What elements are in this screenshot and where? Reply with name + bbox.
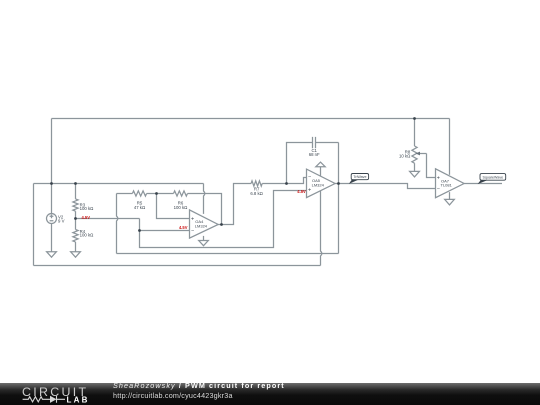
node dot OA4 minus branch [138,229,141,232]
wire C1 right lead [316,142,339,144]
svg-text:−: − [437,186,440,192]
wire R5 to R6 [147,193,174,195]
wire C1 left branch [287,143,313,184]
wire TriWave bottom rail [117,253,339,255]
svg-text:100 kΩ: 100 kΩ [80,206,95,211]
resistor R5 [132,191,146,196]
wire R5 R6 node to OA4 plus [157,194,190,219]
node dot OA4 output [220,223,223,226]
wire OA7 V+ riser [449,119,451,175]
svg-text:LAB: LAB [67,395,90,404]
resistor R4 [73,230,78,242]
op-amp U3 OA7 [436,169,465,198]
potentiometer R8 wiper arrow [420,153,427,155]
capacitor C1 [313,137,316,148]
wire OA7 output [464,183,502,185]
resistor R7 [251,181,262,186]
wire V2 minus lead [51,224,53,252]
flag TriWave [349,174,369,184]
wire OA4 V+ drop with hop [204,184,205,214]
ground R4 [71,252,81,258]
resistor R3 [73,199,78,211]
wire left box edge [33,184,35,266]
wire 4.5V down branch [140,191,307,248]
node dot pot rail tap [413,117,416,120]
svg-text:47 kΩ: 47 kΩ [134,205,146,210]
wire pot bottom lead [414,163,416,171]
wire R3 bottom lead [75,211,77,218]
svg-text:4.5V: 4.5V [297,189,306,194]
ground OA7 [445,199,455,205]
wire TriWave to C1 riser [338,143,340,254]
wire R5 left lead [117,193,133,195]
wire OA5 V- stub [320,167,322,176]
wire R4 bottom lead [75,242,77,252]
svg-text:+: + [308,188,311,194]
wire OA5 output to OA7 minus [335,184,435,189]
svg-text:10 kΩ: 10 kΩ [399,153,411,158]
node dot R3 top [74,182,77,185]
node dot TriWave output [337,182,340,185]
CircuitLab logo [0,383,110,405]
ground OA4 [199,241,209,246]
svg-text:+: + [437,175,440,181]
resistor R6 [174,191,188,196]
ground R8 [410,171,420,177]
wire TriWave left riser with hop [117,194,118,254]
wire OA4 output to R7 riser [218,184,251,225]
wire R6 right lead to OA4 output [188,194,222,225]
svg-text:100 kΩ: 100 kΩ [174,205,189,210]
wire OA4 V- stub [203,236,205,241]
wire V2 plus riser [51,119,53,214]
wire R7 to OA5 minus [262,178,306,184]
node dot C1 left tap [285,182,288,185]
node dot V2 rail [50,182,53,185]
wire bottom +9V rail [34,265,321,267]
wire R4 top lead [75,219,77,230]
wire OA5 V+ riser with hop [321,191,322,266]
op-amp U2 OA5 [307,169,336,198]
svg-text:TriWave: TriWave [353,175,366,179]
svg-text:+: + [191,216,194,222]
potentiometer R8 [412,146,417,163]
svg-text:TL081: TL081 [441,183,453,188]
wire 4.5V to OA4 minus [140,219,190,231]
wire pot wiper to OA7 plus [427,154,436,178]
svg-text:LM324: LM324 [195,223,208,228]
flag SquareWave [478,174,506,185]
svg-text:SquareWave: SquareWave [482,176,503,180]
svg-text:4.5V: 4.5V [179,225,188,230]
node dot R5 R6 junction [155,192,158,195]
op-amp U1 OA4 [190,210,219,238]
svg-text:−: − [308,175,311,181]
wire pot R8 top lead [414,119,416,147]
svg-text:4.5V: 4.5V [82,215,91,220]
footer bar [0,383,540,405]
svg-text:−: − [191,228,194,234]
svg-text:9 V: 9 V [58,218,65,223]
node dot 4.5V divider [74,217,77,220]
ground V2 [47,252,57,258]
wire mid +9V rail to OA4 V+ [34,183,204,185]
wire node 4.5V horizontal [76,218,140,220]
ground flag above OA5 [316,162,325,167]
wire top +9V rail [52,118,450,120]
wire OA7 V- stub [449,192,451,199]
svg-text:100 kΩ: 100 kΩ [80,233,95,238]
wire R3 top lead [75,184,77,199]
voltage source V2 [47,214,57,224]
svg-text:LM324: LM324 [312,183,325,188]
svg-text:6.8 kΩ: 6.8 kΩ [250,191,263,196]
svg-text:68 nF: 68 nF [309,152,320,157]
